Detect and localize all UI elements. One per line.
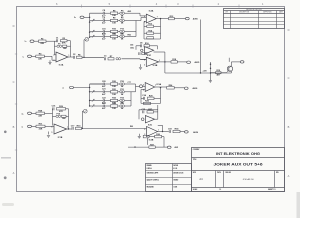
svg-text:IC3A: IC3A: [157, 83, 162, 86]
svg-text:JOKER AUX OUT 5+6: JOKER AUX OUT 5+6: [214, 162, 263, 166]
svg-text:10K: 10K: [112, 108, 116, 110]
ground GND3: [209, 81, 212, 83]
trimmer r21T: [120, 89, 125, 96]
wire row r21: [90, 91, 131, 93]
wire IC3A feedback loop: [141, 88, 161, 104]
svg-text:A: A: [13, 171, 15, 175]
capacitor C3: [104, 56, 107, 61]
capacitor r10C: [102, 28, 107, 35]
potentiometer wiper r22P: [92, 99, 94, 102]
trimmer r8T: [120, 10, 125, 17]
capacitor r21C: [102, 89, 107, 96]
resistor R29 feedback: [57, 106, 66, 113]
resistor r21R: [111, 89, 118, 96]
junction node B: [83, 57, 84, 58]
wire ch1 to IC2B: [122, 58, 147, 61]
svg-text:REV: REV: [276, 172, 279, 174]
junction dots mute rail: [200, 63, 211, 73]
IC3A pin numbers: [143, 84, 156, 91]
wire rows2 to bus: [131, 84, 136, 106]
wire rows to bus: [136, 13, 146, 36]
connector X3 input 2+: [80, 16, 84, 19]
svg-text:AUX6: AUX6: [193, 87, 198, 90]
svg-text:D: D: [13, 24, 15, 28]
svg-text:AUX5: AUX5: [193, 18, 198, 21]
wire IC2B feedback: [154, 52, 165, 62]
wire trim row 2: [53, 115, 69, 117]
margin mark hole punch upper: [4, 131, 7, 134]
svg-text:C: C: [13, 80, 15, 84]
svg-text:REVISION RECORD: REVISION RECORD: [246, 9, 263, 11]
wire Q1 collector to X6: [229, 58, 240, 66]
capacitor C15: [141, 109, 146, 114]
resistor R18 output: [171, 59, 177, 63]
frame top tick marks: [82, 5, 239, 8]
title block dwg no: [242, 178, 254, 181]
svg-text:TITLE: TITLE: [193, 159, 197, 161]
title block signature table: [146, 164, 192, 192]
connector X2 input 1-: [28, 55, 32, 58]
trimmer r20T: [120, 81, 125, 88]
svg-text:AUX6: AUX6: [193, 131, 198, 134]
resistor r9R: [111, 18, 118, 25]
capacitor r11C: [102, 33, 106, 40]
capacitor C14: [142, 94, 147, 100]
capacitor C1 feedback: [56, 38, 59, 43]
trimmer r10T: [120, 29, 125, 36]
svg-text:R88: R88: [130, 126, 133, 128]
resistor R19: [211, 70, 222, 77]
wire R4 to op-amp: [44, 56, 56, 60]
connector X1 input 1+: [30, 40, 34, 43]
IC2A pin numbers: [144, 16, 158, 24]
svg-text:C: C: [288, 76, 290, 80]
resistor R31: [36, 124, 45, 131]
wire row r20: [90, 82, 136, 84]
revision record table: [224, 9, 285, 29]
trimmer r11T: [120, 34, 125, 41]
capacitor C16 feedback: [52, 106, 57, 111]
connector X5 AUX5 R: [187, 61, 191, 63]
junction dots column 2: [89, 87, 90, 107]
resistor R2 feedback: [61, 38, 68, 45]
svg-text:10K: 10K: [112, 39, 116, 41]
connector X4 AUX5 L: [185, 17, 189, 19]
svg-text:SHEET 1/1: SHEET 1/1: [268, 189, 276, 191]
wire feedback top 2: [53, 109, 69, 129]
svg-text:B: B: [288, 125, 290, 129]
ground GND5: [138, 134, 141, 138]
op-amp IC3B: [147, 127, 158, 142]
svg-text:22K: 22K: [40, 43, 44, 45]
wire inv2 frame: [139, 105, 158, 119]
wire junction column 2: [89, 84, 91, 106]
transistor Q1: [221, 66, 233, 73]
svg-text:C77: C77: [128, 82, 131, 84]
capacitor C18: [168, 128, 173, 133]
title text JOKER AUX OUT 5+6: [214, 162, 263, 166]
potentiometer wiper r9P: [92, 19, 94, 22]
trimmer r9T: [120, 18, 125, 25]
connector X8 AUX6 L: [184, 87, 188, 89]
wire IC3B minus branch: [147, 138, 149, 145]
capacitor C17: [71, 125, 76, 130]
svg-text:1:1: 1:1: [219, 189, 221, 191]
svg-text:C55: C55: [130, 45, 133, 47]
svg-text:1+: 1+: [25, 41, 27, 43]
resistor R35: [143, 135, 149, 138]
svg-text:47K: 47K: [59, 110, 63, 113]
resistor r23R: [111, 103, 118, 110]
op-amp IC2B: [146, 57, 158, 67]
svg-text:7: 7: [157, 17, 158, 19]
node label AUX6: [193, 87, 198, 90]
resistor R6: [77, 55, 83, 59]
svg-text:K.MOLL: K.MOLL: [147, 168, 152, 170]
wire row r11: [90, 35, 136, 37]
potentiometer wiper P2: [84, 37, 89, 41]
node IN2+ label: [74, 17, 76, 19]
capacitor r8C: [102, 10, 106, 17]
node label AUX5: [193, 18, 198, 21]
svg-text:CODE: CODE: [173, 187, 177, 189]
svg-text:D: D: [288, 28, 290, 32]
svg-text:SIZE: SIZE: [193, 172, 196, 174]
svg-text:10K: 10K: [112, 23, 116, 25]
frame left tick marks: [15, 54, 17, 150]
wire from IC2B to mute: [165, 62, 211, 73]
svg-text:ISSUED: ISSUED: [173, 180, 178, 182]
resistor r10R: [111, 29, 118, 36]
wire IC2A feedback loop: [144, 19, 161, 39]
resistor R28: [36, 111, 45, 118]
resistor R37: [149, 144, 155, 148]
IC3B pin numbers: [144, 129, 159, 136]
wire row r10: [90, 31, 136, 33]
resistor R30: [62, 115, 67, 120]
wire IC2B minus input: [141, 59, 147, 61]
capacitor C8: [140, 43, 143, 48]
svg-text:10K: 10K: [112, 86, 116, 88]
svg-text:47K: 47K: [62, 42, 66, 45]
wire X10 to R31: [32, 125, 37, 127]
capacitor r22C: [102, 97, 107, 104]
wire IC3B output: [158, 131, 169, 132]
svg-text:22K: 22K: [38, 58, 42, 60]
node IN2- label: [63, 87, 65, 89]
wire X2 to R4: [32, 55, 36, 57]
wire R18 to X5: [177, 61, 186, 63]
node IN3- label: [22, 126, 24, 128]
svg-text:A4: A4: [199, 177, 203, 181]
wire row r8: [90, 10, 140, 13]
node IN1- label: [23, 56, 25, 58]
connector node circle 3: [141, 118, 144, 121]
capacitor r20C: [102, 81, 107, 88]
wire inv top: [136, 46, 158, 50]
svg-text:FSCM: FSCM: [217, 172, 221, 174]
potentiometer wiper r21P: [92, 90, 94, 93]
connector X12: [167, 146, 171, 148]
wire riser x82: [81, 111, 83, 128]
resistor R3: [63, 45, 67, 50]
wire X9 to R28: [32, 112, 37, 114]
svg-text:22K: 22K: [39, 128, 43, 130]
resistor R12 output: [169, 16, 175, 20]
op-amp IC1B: [54, 124, 67, 139]
wire to X12: [164, 146, 167, 148]
resistor R34 output: [173, 128, 180, 133]
potentiometer wiper r23P: [92, 105, 94, 108]
wire trim row: [55, 45, 71, 47]
resistor R27: [147, 109, 158, 113]
wire R34 to X11: [180, 131, 184, 133]
svg-text:B: B: [13, 125, 15, 129]
wire row A feed: [90, 12, 104, 14]
wire R28 to node C: [45, 113, 53, 125]
svg-text:R66: R66: [128, 35, 131, 37]
ground GND4: [47, 136, 50, 138]
potentiometer wiper P17: [82, 109, 87, 113]
svg-text:IC3C: IC3C: [148, 124, 153, 126]
border frame: [17, 7, 285, 192]
wire IC2A output: [156, 18, 168, 19]
svg-text:IC2B: IC2B: [153, 65, 158, 67]
svg-text:IC1A: IC1A: [59, 64, 64, 67]
capacitor C2: [73, 54, 76, 59]
wire row r23: [90, 105, 131, 107]
wire bottom row: [128, 137, 164, 148]
node label OUT: [175, 146, 179, 149]
wire R12 to X4: [174, 18, 185, 20]
resistor R13 feedback: [144, 24, 161, 28]
svg-text:DESCRIPTION: DESCRIPTION: [239, 12, 249, 14]
wire X7 to junction column 2: [74, 87, 90, 89]
wire X1 to R1: [34, 40, 39, 42]
node label AUX6R: [193, 131, 198, 134]
svg-text:DWG NO: DWG NO: [226, 172, 231, 174]
IC2B pin numbers: [144, 59, 160, 66]
wire riser x84: [83, 40, 85, 58]
wire X3 to junction column: [84, 16, 90, 18]
wire IC3B feedback: [158, 125, 163, 131]
label C55 block: [130, 45, 134, 50]
junction node D: [82, 128, 83, 129]
svg-text:A: A: [288, 174, 290, 178]
potentiometer wiper r10P: [92, 30, 94, 33]
svg-text:22K: 22K: [38, 115, 42, 117]
op-amp IC2A: [146, 10, 156, 23]
connector X7 input 2-: [70, 86, 74, 89]
resistor R17: [142, 53, 147, 55]
wire inv2 out: [154, 118, 158, 120]
resistor R14 feedback: [144, 29, 161, 34]
resistor R36: [149, 134, 162, 138]
connector node circle: [141, 49, 143, 51]
op-amp IC2C inverter: [145, 47, 154, 57]
wire R31 to op-amp 2: [45, 125, 54, 127]
svg-text:10K: 10K: [62, 118, 66, 120]
wire output bus ch1: [82, 56, 104, 58]
scan smudge bottom left: [2, 203, 14, 206]
svg-text:IC2A: IC2A: [149, 10, 154, 13]
ground GND1: [48, 60, 51, 64]
wire row r9: [90, 20, 136, 22]
resistor r22R: [111, 98, 118, 105]
op-amp IC3C inverter: [145, 116, 154, 127]
wire AUX5 bus vertical: [200, 20, 202, 74]
wire feedback top: [55, 41, 71, 57]
wire row r22: [90, 100, 131, 102]
wire R24 to X8: [174, 87, 184, 89]
node IN1+ label: [25, 41, 27, 43]
potentiometer wiper r11P: [92, 35, 94, 38]
wire IC1B output: [67, 128, 72, 129]
resistor R26 feedback: [144, 101, 151, 105]
resistor R7: [108, 56, 114, 60]
wire IC2B output: [159, 61, 171, 62]
node label +15V: [203, 70, 208, 72]
trimmer P1: [57, 43, 62, 47]
title block size A4: [199, 177, 203, 181]
connector X10 input 3-: [28, 125, 32, 128]
node label AUX5R: [195, 61, 200, 64]
resistor R24 output: [167, 84, 175, 89]
resistor R33: [76, 126, 82, 130]
svg-text:AUX5: AUX5: [195, 61, 200, 64]
resistor R1: [39, 38, 47, 45]
capacitor r23C: [102, 103, 107, 110]
node IN3+ label: [22, 113, 24, 115]
wire to IC3A: [136, 85, 146, 87]
op-amp IC1A: [56, 52, 68, 67]
svg-text:100n: 100n: [130, 47, 134, 49]
wire IC3A output: [155, 87, 167, 88]
trimmer r22T: [120, 98, 125, 105]
svg-text:10K: 10K: [112, 94, 116, 96]
wire IC1A output: [68, 56, 73, 58]
frame left zone letters D C B A: [13, 24, 15, 175]
resistor R15 feedback: [147, 37, 154, 39]
svg-text:JOK-AX-56: JOK-AX-56: [242, 178, 254, 181]
IC1B pin numbers: [52, 127, 69, 134]
resistor r8R: [111, 10, 118, 17]
wire junction column top: [89, 13, 91, 37]
title block outline: [192, 148, 285, 192]
op-amp IC3A: [145, 83, 161, 92]
resistor r20R: [111, 81, 118, 88]
margin mark hole punch lower: [4, 176, 7, 179]
connector X6 mute out: [240, 61, 244, 63]
svg-text:AU5: AU5: [128, 10, 132, 13]
capacitor C9: [139, 52, 140, 55]
wire R32 to ground: [48, 132, 50, 135]
title text INT ELEKTRONIK OHG: [216, 152, 260, 156]
connector X9 input 3+: [28, 112, 32, 115]
wire row E feed: [90, 83, 104, 85]
trimmer P3: [116, 58, 121, 60]
trimmer P16: [56, 114, 61, 118]
wire +15V rail: [210, 62, 212, 79]
scan shadow right edge: [297, 192, 301, 218]
frame right zone letters D C B A: [288, 28, 290, 178]
svg-text:6.0.91: 6.0.91: [173, 168, 177, 170]
wire Q1 emitter: [211, 71, 232, 73]
wire R1 to node A: [46, 41, 56, 55]
ground GND2: [139, 64, 142, 69]
svg-text:10K: 10K: [63, 48, 67, 50]
resistor R16: [144, 43, 150, 47]
margin mark dash: [1, 157, 11, 158]
svg-text:IC1B: IC1B: [58, 137, 63, 139]
connector node circle 2: [140, 85, 143, 88]
trimmer r23T: [120, 103, 125, 110]
wire rail to GND3: [209, 79, 211, 81]
connector X11 AUX6 R: [184, 131, 188, 133]
wire output bus ch2: [82, 126, 147, 128]
svg-text:IC3B: IC3B: [149, 139, 154, 141]
svg-text:INT ELEKTRONIK OHG: INT ELEKTRONIK OHG: [216, 152, 260, 156]
resistor R4: [36, 53, 45, 61]
capacitor r9C: [102, 17, 106, 24]
svg-text:3+: 3+: [22, 113, 24, 115]
resistor r11R: [111, 34, 118, 41]
frame top zone numbers 6-1: [56, 2, 264, 6]
svg-text:2+: 2+: [74, 17, 76, 19]
junction dots column: [89, 17, 90, 38]
svg-text:IC2C: IC2C: [147, 55, 152, 57]
IC1A pin numbers: [54, 55, 70, 62]
resistor R25 feedback: [141, 96, 161, 100]
